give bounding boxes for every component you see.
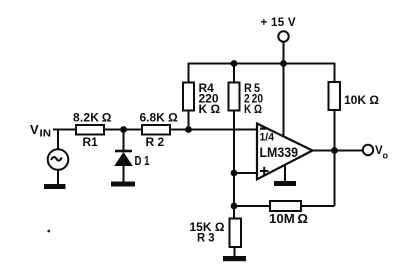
- node B junction R4 tap: [185, 126, 192, 133]
- wire rail corner down to 10K: [334, 63, 336, 83]
- svg-text:R 3: R 3: [197, 231, 215, 245]
- wire 10M to right vertical: [301, 205, 335, 207]
- svg-text:D 1: D 1: [135, 154, 150, 168]
- resistor R2: [140, 111, 179, 150]
- svg-text:8.2K Ω: 8.2K Ω: [73, 111, 112, 125]
- wire feedback line node D to 10M: [234, 205, 270, 207]
- wire VIN to R1: [53, 129, 76, 131]
- resistor R3: [190, 219, 242, 248]
- node junction rail/+15V: [280, 60, 287, 67]
- svg-text:o: o: [383, 151, 389, 161]
- diode D1: [114, 150, 149, 168]
- resistor R1: [73, 111, 112, 150]
- node E output junction: [331, 147, 338, 154]
- wire R2 to inverting input: [170, 129, 257, 131]
- wire rail down to comparator supply pin: [283, 64, 285, 137]
- resistor R5: [229, 81, 264, 116]
- node A junction diode tap: [120, 126, 127, 133]
- node junction rail/R5: [231, 60, 238, 67]
- svg-text:R1: R1: [83, 135, 99, 149]
- node C junction non-inverting input: [231, 170, 238, 177]
- wire node C down to node D: [233, 173, 235, 206]
- resistor 10M ohm: [269, 201, 308, 226]
- wire VIN branch down to source: [57, 130, 59, 150]
- wire node C to non-inverting input: [234, 172, 257, 174]
- wire output node down to feedback: [334, 151, 336, 207]
- wire R5 down through crossing to node C: [233, 111, 235, 174]
- ground under comparator: [274, 181, 296, 186]
- resistor 10K ohm: [329, 82, 380, 110]
- wire node D down to R3: [233, 206, 235, 219]
- svg-text:K Ω: K Ω: [199, 102, 221, 116]
- op-amp U1 comparator 1/4 LM339: [257, 124, 313, 180]
- wire R1 to node A: [104, 129, 142, 131]
- wire +15V lead down to rail: [283, 42, 285, 64]
- svg-text:LM339: LM339: [260, 145, 299, 160]
- wire R3 to ground: [234, 247, 236, 257]
- node Vo terminal: [363, 145, 389, 161]
- wire R4 to node B: [188, 111, 190, 130]
- resistor R4: [183, 81, 221, 116]
- svg-text:R 2: R 2: [146, 135, 165, 149]
- wire diode to ground: [123, 166, 125, 182]
- wire rail corner down to R4: [188, 63, 190, 83]
- ground under source: [44, 184, 66, 189]
- wire node A down to diode: [123, 130, 125, 151]
- wire source to ground: [57, 170, 59, 185]
- wire 10K down to output node: [334, 110, 336, 151]
- wire comparator output to Vo: [313, 150, 363, 152]
- wire top supply rail: [189, 63, 335, 65]
- svg-text:K Ω: K Ω: [244, 102, 262, 116]
- svg-text:IN: IN: [40, 129, 52, 140]
- source V1 AC generator: [48, 149, 69, 170]
- svg-text:+ 15 V: + 15 V: [261, 17, 296, 29]
- svg-text:1/4: 1/4: [260, 132, 275, 144]
- svg-text:V: V: [30, 122, 39, 137]
- ground under diode: [111, 182, 135, 187]
- node VIN label: [30, 122, 51, 140]
- wire rail down to R5: [233, 64, 235, 84]
- wire comparator ground pin: [284, 165, 286, 182]
- node +15V terminal: [261, 17, 296, 41]
- ground under R3: [223, 256, 246, 261]
- node D junction feedback/R3: [231, 203, 238, 210]
- svg-text:10M Ω: 10M Ω: [269, 212, 308, 226]
- svg-text:6.8K Ω: 6.8K Ω: [140, 111, 179, 125]
- svg-text:10K Ω: 10K Ω: [344, 93, 379, 107]
